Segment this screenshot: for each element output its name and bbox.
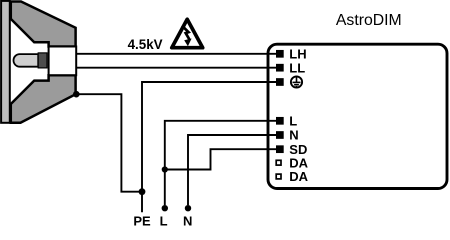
svg-text:DA: DA (289, 155, 308, 170)
wire lamp reflector earth (76, 94, 142, 212)
svg-text:4.5kV: 4.5kV (128, 37, 163, 52)
wire SD link to L (165, 149, 276, 169)
svg-text:AstroDIM: AstroDIM (336, 12, 402, 29)
svg-text:L: L (160, 214, 168, 228)
lamp LA1 front glass strip (1, 1, 10, 123)
wire L supply (165, 121, 276, 205)
control gear box AstroDIM (268, 44, 447, 188)
svg-text:LL: LL (289, 60, 305, 75)
terminal SD (276, 145, 284, 153)
terminal DA upper (276, 160, 281, 165)
lamp LA1 reflector top wedge (11, 2, 76, 47)
terminal DA lower (276, 174, 281, 179)
lamp LA1 burner capsule (14, 54, 39, 67)
svg-text:PE: PE (133, 214, 151, 228)
lamp LA1 capsule holder (38, 53, 47, 68)
terminal LH (276, 50, 284, 58)
svg-text:LH: LH (289, 46, 306, 61)
junction PE node (139, 188, 146, 195)
junction reflector earth tap (73, 91, 80, 98)
junction SD-L (162, 166, 168, 172)
wire N supply (188, 135, 276, 205)
wire lamp to LH (76, 53, 276, 55)
terminal N (276, 131, 284, 139)
terminal L (276, 117, 284, 125)
terminal dot N (185, 205, 191, 211)
earth symbol in circle (291, 76, 302, 87)
terminal LL (276, 64, 284, 72)
lightning bolt (182, 26, 189, 40)
wire earth from box to PE (142, 82, 276, 192)
svg-text:N: N (289, 128, 298, 143)
svg-text:N: N (183, 214, 192, 228)
warning triangle high voltage (172, 19, 203, 47)
wire lamp to LL (76, 67, 276, 69)
lamp LA1 reflector bottom wedge (11, 75, 76, 123)
svg-text:DA: DA (289, 169, 308, 184)
svg-text:L: L (289, 113, 297, 128)
terminal dot L (162, 205, 168, 211)
terminal earth (276, 78, 284, 86)
lamp LA1 base block (49, 47, 77, 76)
